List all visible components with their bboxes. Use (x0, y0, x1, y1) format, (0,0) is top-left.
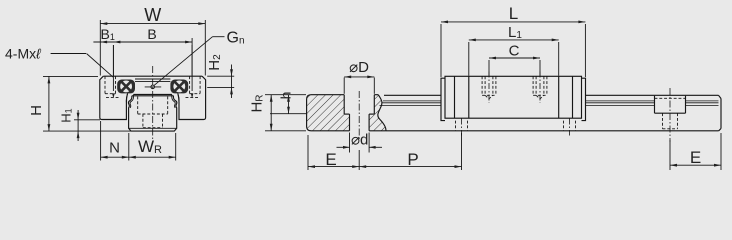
H1 dimension (59, 108, 101, 141)
top face lines (134, 93, 172, 95)
ball pocket right (screw head) (170, 80, 188, 94)
svg-text:⌀D: ⌀D (349, 59, 369, 76)
body boundary right (L1) (558, 76, 560, 118)
bottom chamfer line (129, 127, 176, 129)
cap|seal boundary right (572, 76, 574, 118)
ball pocket left (screw head) (117, 80, 135, 94)
svg-text:B: B (147, 26, 156, 42)
counterbore walls (343, 95, 345, 114)
block top edge (103, 75, 202, 77)
svg-text:H2: H2 (206, 54, 223, 71)
svg-text:P: P (407, 150, 418, 169)
svg-text:W: W (144, 5, 161, 25)
break line (378, 95, 386, 131)
Gn label and leader (154, 30, 244, 86)
cap|seal boundary left (454, 76, 456, 118)
covered rail hole B (under carriage) (564, 119, 576, 136)
gap lines between block lips and rail (126, 93, 127, 102)
E and P dimensions (bottom left) (308, 133, 462, 170)
svg-text:L1: L1 (508, 24, 522, 41)
svg-text:⌀d: ⌀d (351, 132, 368, 149)
center line of hole 1 (358, 91, 360, 140)
top edge segments (384, 94, 441, 96)
C dimension (489, 43, 540, 76)
carriage tapped hole 1 (482, 72, 496, 104)
left end seal (441, 78, 445, 120)
4-Mxl label and leader (5, 46, 113, 78)
carriage (side view) (441, 76, 586, 120)
H dimension (28, 76, 134, 131)
groove lines (380, 101, 719, 106)
svg-text:WR: WR (138, 137, 162, 156)
block outline (end view) (100, 76, 128, 119)
svg-text:B1: B1 (101, 26, 115, 42)
diameter D dimension (344, 59, 374, 94)
svg-text:h: h (278, 92, 294, 100)
grease hole Gn (145, 85, 162, 89)
L dimension (441, 4, 585, 77)
svg-text:E: E (690, 148, 701, 167)
right end seal (582, 78, 586, 120)
diameter d dimension (337, 132, 383, 153)
rail end hole (right) (655, 88, 686, 142)
body boundary left (L1) (468, 76, 470, 118)
svg-text:C: C (509, 43, 520, 60)
rail (end view) (128, 94, 176, 131)
rail counterbore (hidden, end view) (138, 97, 168, 128)
block incl. end caps (445, 76, 582, 118)
svg-text:Gn: Gn (227, 30, 245, 47)
right end (720, 99, 722, 129)
svg-text:H: H (28, 105, 45, 116)
outline (307, 95, 350, 131)
HR dimension (249, 94, 307, 130)
hatched rail section block (307, 95, 386, 131)
svg-text:H1: H1 (59, 108, 74, 122)
H2 dimension (206, 54, 234, 98)
E dimension (right) (670, 133, 721, 170)
groove extra lines (130, 94, 134, 108)
B dimension (93, 26, 192, 76)
svg-text:4-Mxℓ: 4-Mxℓ (5, 46, 41, 62)
svg-text:L: L (509, 4, 518, 23)
interior top lines between pockets (135, 78, 170, 80)
left profile (128, 96, 176, 131)
rail side view lines (380, 95, 722, 131)
h dimension (270, 92, 306, 114)
bottom edge (386, 130, 719, 132)
M tapped hole left (hidden) (105, 45, 120, 98)
N and WR dimensions (101, 121, 176, 161)
W dimension (100, 5, 205, 76)
carriage tapped hole 2 (533, 72, 547, 104)
L1 dimension (469, 24, 559, 76)
svg-text:E: E (325, 150, 336, 169)
svg-text:N: N (109, 140, 120, 157)
M tapped hole right (hidden) (186, 45, 201, 98)
svg-text:HR: HR (249, 94, 266, 112)
center line of left view (152, 66, 154, 141)
covered rail hole A (under carriage) (456, 119, 468, 136)
